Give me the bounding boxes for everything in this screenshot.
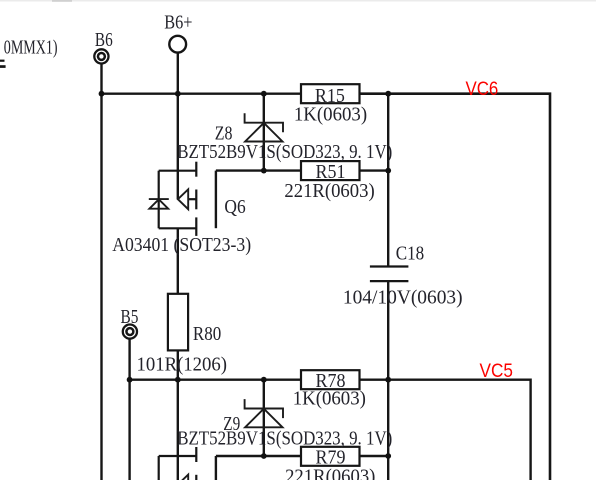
svg-text:221R(0603): 221R(0603) (285, 465, 375, 480)
zener diode Z9 (245, 399, 283, 427)
svg-text:B6+: B6+ (164, 12, 192, 34)
svg-text:R80: R80 (193, 323, 221, 345)
pin B5 (double circle) (123, 325, 137, 339)
resistor R78 (301, 370, 360, 389)
svg-text:BZT52B9V1S(SOD323, 9. 1V): BZT52B9V1S(SOD323, 9. 1V) (177, 141, 392, 163)
wire B5 vertical down to bottom edge (128, 339, 130, 480)
wire B6+ vertical down to Q6 arrow apex (177, 53, 179, 200)
svg-text:VC6: VC6 (466, 78, 499, 100)
transistor Q6 P-MOSFET (159, 162, 197, 236)
svg-text:0MMX1): 0MMX1) (4, 37, 58, 59)
wire Q7 gate horizontal to R79 (216, 455, 301, 457)
svg-text:B6: B6 (95, 29, 113, 51)
wire mid vertical from C18 bottom plate to bottom edge (387, 281, 389, 480)
svg-text:1K(0603): 1K(0603) (293, 387, 366, 409)
wire Q6 gate horizontal to R51 (216, 169, 301, 171)
wire Q7 gate bar vertical (clipped) (215, 456, 217, 480)
svg-text:221R(0603): 221R(0603) (284, 180, 374, 202)
svg-text:BZT52B9V1S(SOD323, 9. 1V): BZT52B9V1S(SOD323, 9. 1V) (177, 428, 392, 450)
svg-text:1K(0603): 1K(0603) (294, 103, 367, 125)
resistor R51 (301, 161, 360, 180)
pin B6 (double circle) (94, 49, 108, 63)
resistor R15 (301, 84, 360, 103)
junction dots lower gate wire row (261, 453, 391, 459)
top window edge line (decorative) (0, 0, 596, 2)
clipped text fragment at left edge (0, 60, 5, 62)
svg-text:101R(1206): 101R(1206) (137, 354, 228, 376)
wire R51 right lead (360, 169, 389, 171)
zener diode Z8 (245, 113, 283, 141)
wire B6 vertical down left side (100, 63, 102, 480)
wire R79 right lead (360, 455, 389, 457)
Q7 substrate arrow (clipped) (178, 475, 188, 480)
wire Q6 drain stub down to R80 (177, 228, 179, 293)
wire Z8 vertical from top bus to gate wire (263, 94, 265, 171)
junction dots gate wire row (261, 168, 391, 174)
transistor Q7 P-MOSFET (clipped at bottom) (159, 447, 197, 480)
capacitor C18 (370, 267, 409, 282)
wire VC5 bus right segment with corner down (360, 380, 531, 480)
Q6 substrate arrow (178, 189, 188, 209)
wire mid vertical from top bus to C18 top plate (387, 94, 389, 266)
svg-text:VC5: VC5 (480, 360, 514, 382)
resistor R79 (301, 447, 360, 466)
wire Q6 gate bar vertical (215, 171, 217, 229)
svg-text:Q6: Q6 (224, 196, 245, 218)
wire top bus right segment with VC6 corner down right edge (360, 94, 551, 480)
svg-text:C18: C18 (396, 243, 425, 265)
wire R80 bottom lead down through VC5 bus to bottom edge (177, 350, 179, 480)
svg-text:104/10V(0603): 104/10V(0603) (343, 287, 463, 309)
wire top bus left segment (102, 92, 302, 94)
Q6 body diode (149, 199, 169, 209)
junction dots VC5 bus (127, 377, 391, 383)
svg-text:A03401 (SOT23-3): A03401 (SOT23-3) (112, 234, 251, 256)
wire VC5 bus left segment (130, 379, 301, 381)
wire Z9 vertical from VC5 bus to lower gate wire (263, 380, 265, 456)
svg-text:B5: B5 (121, 306, 139, 328)
resistor R80 (vertical) (168, 294, 188, 351)
junction dots top bus (99, 91, 392, 97)
pin B6+ (circle) (169, 36, 186, 53)
